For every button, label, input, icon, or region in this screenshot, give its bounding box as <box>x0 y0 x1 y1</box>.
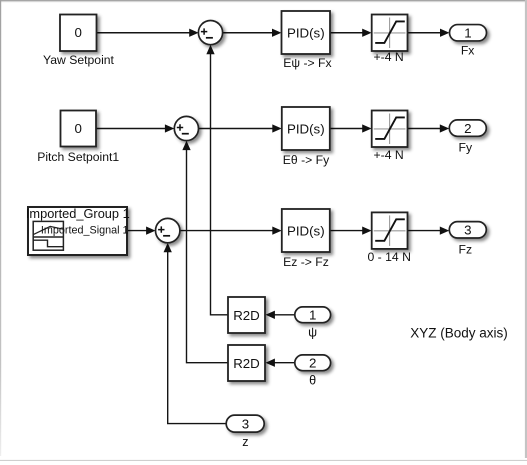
canvas frame bottom edge <box>0 460 527 461</box>
wire: R2D1 feedback to sum1 bottom (psi) <box>206 45 228 315</box>
wire: sum2 to PID2 <box>199 124 282 132</box>
svg-text:+-4 N: +-4 N <box>374 50 404 64</box>
sum block 3 (z error) <box>156 218 180 242</box>
wire: PID1 to saturation1 <box>330 29 372 37</box>
PID controller block 1 <box>282 11 331 54</box>
svg-text:z: z <box>242 435 248 449</box>
wire: inport theta to R2D2 <box>266 359 295 367</box>
svg-text:2: 2 <box>309 356 316 371</box>
svg-text:0 - 14 N: 0 - 14 N <box>368 250 411 264</box>
svg-text:PID(s): PID(s) <box>287 121 325 136</box>
svg-text:Fz: Fz <box>459 242 473 256</box>
svg-text:0: 0 <box>74 121 81 136</box>
svg-text:3: 3 <box>464 223 471 238</box>
outport 2 Fy <box>449 120 486 136</box>
inport 1 psi <box>295 307 331 323</box>
wire: PID3 to saturation3 <box>330 226 372 234</box>
svg-text:ψ: ψ <box>308 325 317 339</box>
PID controller block 2 <box>282 107 330 150</box>
svg-text:PID(s): PID(s) <box>287 223 325 238</box>
svg-text:Pitch Setpoint1: Pitch Setpoint1 <box>37 150 119 164</box>
svg-text:R2D: R2D <box>233 356 260 371</box>
saturation block 2 <box>372 111 408 148</box>
constant block Pitch Setpoint1 value 0 <box>61 111 97 147</box>
canvas frame right edge <box>525 0 527 458</box>
svg-text:Imported_Group 1: Imported_Group 1 <box>26 206 130 221</box>
canvas frame left edge <box>0 0 1 456</box>
saturation block 1 <box>372 15 408 52</box>
outport 1 Fx <box>450 25 487 41</box>
wire: sum3 to PID3 <box>180 226 282 234</box>
svg-text:1: 1 <box>464 26 471 41</box>
wire: saturation2 to outport Fy <box>408 124 450 132</box>
PID controller block 3 <box>282 209 330 252</box>
wire: inport psi to R2D1 <box>266 311 295 319</box>
svg-text:θ: θ <box>309 373 316 387</box>
wire: PID2 to saturation2 <box>330 124 372 132</box>
svg-text:Fx: Fx <box>461 43 475 57</box>
canvas frame top edge <box>0 0 527 2</box>
wire: saturation3 to outport Fz <box>408 226 450 234</box>
svg-text:Imported_Signal 1: Imported_Signal 1 <box>41 225 129 237</box>
sum block 2 (pitch error) <box>174 116 198 140</box>
svg-text:1: 1 <box>309 308 316 323</box>
sum block 1 (yaw error) <box>198 20 222 44</box>
R2D block 1 (radians to degrees, psi) <box>228 297 265 333</box>
signal editor block Imported_Group 1 <box>26 206 130 255</box>
svg-text:Yaw Setpoint: Yaw Setpoint <box>43 53 115 67</box>
wire: R2D2 feedback to sum2 bottom (theta) <box>182 141 228 363</box>
saturation block 3 <box>372 212 408 249</box>
svg-text:Fy: Fy <box>459 140 473 154</box>
svg-text:XYZ (Body axis): XYZ (Body axis) <box>410 326 508 341</box>
svg-text:Ez -> Fz: Ez -> Fz <box>283 255 329 269</box>
wire: saturation1 to outport Fx <box>408 29 450 37</box>
R2D block 2 (radians to degrees, theta) <box>228 345 265 381</box>
svg-text:R2D: R2D <box>233 308 260 323</box>
svg-text:0: 0 <box>74 25 81 40</box>
svg-text:Eψ -> Fx: Eψ -> Fx <box>283 56 331 70</box>
wire: inport z to sum3 bottom <box>164 243 227 424</box>
wire: constant Yaw Setpoint to sum1 <box>97 29 199 37</box>
inport 3 z <box>226 415 264 432</box>
svg-text:3: 3 <box>242 416 249 431</box>
svg-text:Eθ -> Fy: Eθ -> Fy <box>283 153 330 167</box>
svg-text:+-4 N: +-4 N <box>374 148 404 162</box>
wire: constant Pitch Setpoint1 to sum2 <box>96 124 174 132</box>
inport 2 theta <box>295 355 331 371</box>
outport 3 Fz <box>449 222 486 238</box>
constant block Yaw Setpoint value 0 <box>60 15 97 52</box>
wire: sum1 to PID1 <box>223 29 282 37</box>
svg-text:2: 2 <box>464 121 471 136</box>
wire: Imported_Group block to sum3 <box>127 226 156 234</box>
svg-text:PID(s): PID(s) <box>287 25 325 40</box>
